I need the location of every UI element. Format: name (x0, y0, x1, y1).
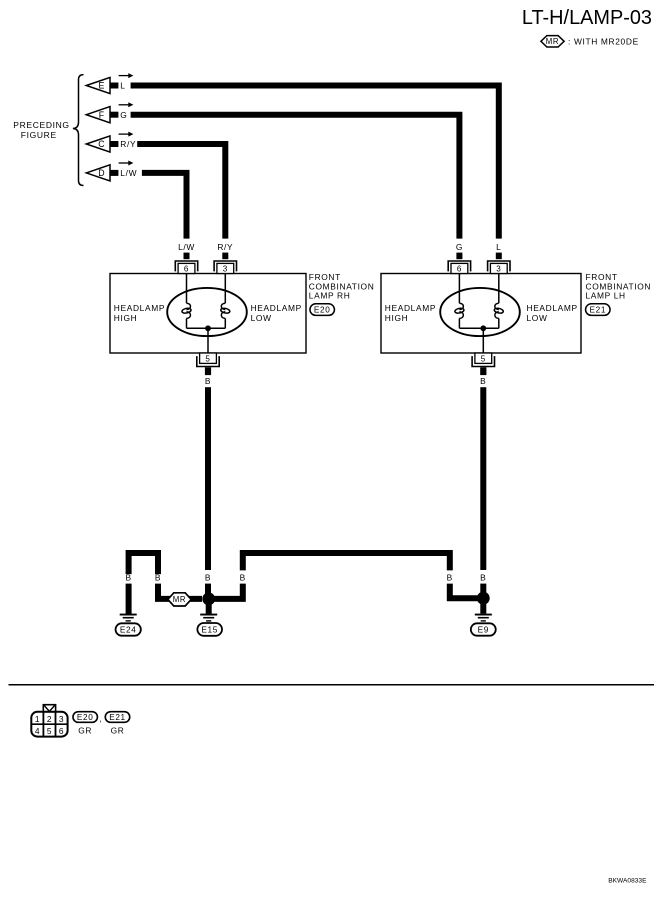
internal junction (RH) (205, 325, 211, 331)
svg-text:5: 5 (205, 355, 210, 364)
svg-text:R/Y: R/Y (120, 139, 136, 149)
svg-text:L: L (120, 81, 125, 91)
wire B vertical (LH) (480, 387, 486, 570)
wire B vertical (RH) (205, 387, 211, 570)
ground symbol for E9 (475, 614, 492, 622)
label HEADLAMP HIGH (LH) (385, 303, 436, 323)
wire inverted-U to E24 (top segment) (129, 553, 158, 574)
pin 3 connector (RH) (214, 261, 236, 274)
svg-text:B: B (205, 573, 211, 583)
svg-text:LAMP LH: LAMP LH (586, 291, 626, 301)
internal lead below low filament (RH) (224, 318, 226, 328)
bulb ellipse (LH) (440, 288, 520, 336)
label PRECEDING FIGURE (13, 120, 69, 140)
svg-text:B: B (155, 573, 161, 583)
label HEADLAMP HIGH (RH) (114, 303, 165, 323)
wire stub above pin L/W (184, 253, 190, 260)
ground ref E9 (471, 623, 496, 635)
svg-text:LAMP RH: LAMP RH (309, 291, 351, 301)
svg-text:: WITH MR20DE: : WITH MR20DE (568, 36, 639, 46)
svg-text:HEADLAMP: HEADLAMP (251, 303, 302, 313)
wire stub below pin 5 (RH) (205, 367, 211, 375)
svg-text:5: 5 (481, 355, 486, 364)
svg-text:G: G (456, 242, 463, 252)
svg-text:6: 6 (59, 726, 64, 736)
wire R/Y from C (137, 144, 225, 239)
connector face legend (pins 1-6) (31, 705, 67, 737)
wire L/W from D (142, 173, 187, 239)
wire stub below E15 junction (206, 603, 212, 614)
wire stub above pin L (496, 253, 502, 260)
svg-text:R/Y: R/Y (217, 242, 233, 252)
label HEADLAMP LOW (RH) (251, 303, 302, 323)
wire riser to cross run (243, 553, 450, 570)
svg-text:3: 3 (223, 265, 228, 274)
svg-text:1: 1 (35, 714, 40, 724)
svg-text:GR: GR (78, 725, 92, 735)
svg-text:B: B (240, 573, 246, 583)
svg-text:BKWA0833E: BKWA0833E (608, 877, 647, 884)
internal lead from pin 6 (RH) (186, 274, 188, 304)
connector arrow E (86, 73, 133, 94)
svg-text:HEADLAMP: HEADLAMP (385, 303, 436, 313)
svg-text:C: C (98, 139, 105, 149)
connector arrow F (86, 102, 133, 123)
internal lead below low filament (LH) (498, 318, 500, 328)
junction dot E15 (202, 593, 215, 606)
svg-text:6: 6 (184, 265, 189, 274)
high beam filament (RH) (182, 303, 192, 318)
ground ref E24 (116, 623, 141, 635)
wire E24 leg below label (126, 584, 132, 614)
svg-text:3: 3 (59, 714, 64, 724)
svg-text:,: , (99, 714, 102, 724)
svg-text:HEADLAMP: HEADLAMP (114, 303, 165, 313)
wire stub below E9 junction (480, 602, 486, 613)
svg-text:B: B (125, 573, 131, 583)
svg-text:G: G (120, 110, 127, 120)
svg-text:5: 5 (47, 726, 52, 736)
svg-text:6: 6 (457, 265, 462, 274)
front combination lamp LH box (381, 274, 581, 354)
brace (73, 75, 84, 186)
svg-text:LOW: LOW (251, 313, 272, 323)
internal lead below high filament (RH) (186, 318, 188, 328)
pin 3 connector (LH) (488, 261, 510, 274)
internal lead from pin 6 (LH) (458, 274, 460, 304)
pin 6 connector (RH) (175, 261, 197, 274)
svg-text:L/W: L/W (120, 168, 137, 178)
MR condition symbol (ground branch) (168, 593, 191, 606)
svg-text:E21: E21 (109, 713, 126, 722)
internal bottom lead (LH) (459, 327, 498, 329)
svg-text:E20: E20 (77, 713, 94, 722)
junction dot E9 (477, 592, 490, 605)
wire stub above pin G (456, 253, 462, 260)
ground ref E15 (197, 623, 222, 636)
wire stub below pin 5 (LH) (480, 367, 486, 375)
pin 6 connector (LH) (448, 261, 470, 274)
svg-text:HIGH: HIGH (114, 313, 138, 323)
wire E15 left leg below label (158, 584, 202, 599)
svg-text:MR: MR (173, 595, 186, 604)
pin 5 connector (LH) (472, 353, 494, 367)
ground symbol for E15 (200, 614, 217, 622)
svg-text:E21: E21 (590, 306, 607, 315)
front combination lamp RH box (110, 274, 306, 354)
svg-text:FIGURE: FIGURE (21, 130, 57, 140)
separator rule (9, 684, 655, 686)
svg-text:2: 2 (47, 714, 52, 724)
component name FRONT COMBINATION LAMP LH (586, 272, 652, 301)
legend connector ref E20 (73, 712, 98, 723)
svg-text:GR: GR (111, 725, 125, 735)
svg-text:4: 4 (35, 726, 40, 736)
svg-text:MR: MR (546, 37, 559, 46)
internal junction (LH) (480, 325, 486, 331)
wire down to E9 junction (450, 584, 484, 599)
high beam filament (LH) (454, 303, 464, 318)
internal lead to pin 5 (LH) (482, 328, 484, 353)
svg-text:HIGH: HIGH (385, 313, 409, 323)
bulb ellipse (RH) (167, 288, 247, 336)
svg-text:E15: E15 (201, 624, 218, 634)
internal lead to pin 5 (RH) (207, 328, 209, 353)
connector ref E21 (586, 304, 611, 316)
svg-text:3: 3 (496, 265, 501, 274)
svg-text:E: E (99, 81, 106, 91)
low beam filament (LH) (494, 303, 504, 318)
connector arrow C (86, 132, 136, 153)
wire stub above pin R/Y (222, 253, 228, 260)
internal bottom lead (RH) (187, 327, 226, 329)
svg-text:E9: E9 (478, 625, 489, 635)
label HEADLAMP LOW (LH) (527, 303, 578, 323)
component name FRONT COMBINATION LAMP RH (309, 272, 375, 301)
svg-text:E20: E20 (314, 306, 331, 315)
svg-text:HEADLAMP: HEADLAMP (527, 303, 578, 313)
svg-text:LT-H/LAMP-03: LT-H/LAMP-03 (522, 7, 652, 29)
wire G from F (131, 115, 460, 239)
connector arrow D (86, 161, 137, 182)
internal lead from pin 3 (RH) (224, 274, 226, 304)
wire stub above ground junction (RH) (205, 584, 211, 599)
legend connector ref E21 (105, 712, 130, 723)
internal lead from pin 3 (LH) (498, 274, 500, 304)
wire stub above ground junction (LH) (480, 584, 486, 599)
MR condition symbol (top legend) (541, 36, 564, 47)
svg-text:D: D (98, 168, 105, 178)
svg-text:B: B (447, 573, 453, 583)
svg-text:PRECEDING: PRECEDING (13, 120, 69, 130)
pin 5 connector (RH) (197, 353, 219, 367)
wire L from E (131, 86, 499, 239)
svg-text:L/W: L/W (178, 242, 195, 252)
svg-text:L: L (496, 242, 501, 252)
svg-text:B: B (480, 376, 486, 386)
svg-text:F: F (99, 110, 105, 120)
internal lead below high filament (LH) (458, 318, 460, 328)
svg-text:LOW: LOW (527, 313, 548, 323)
wire from E15 junction to riser (209, 584, 243, 599)
ground symbol for E24 (120, 614, 137, 622)
low beam filament (RH) (220, 303, 230, 318)
svg-text:B: B (205, 376, 211, 386)
connector ref E20 (310, 304, 335, 316)
svg-text:B: B (480, 573, 486, 583)
svg-text:E24: E24 (120, 625, 137, 635)
